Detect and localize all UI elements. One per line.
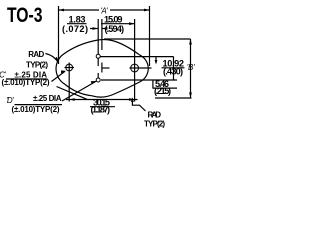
svg-text:TYP(2): TYP(2) — [26, 61, 48, 70]
pin centerline — [97, 19, 99, 66]
RAD bottom-right arrowhead — [131, 97, 134, 102]
30.15 left arrow — [69, 98, 75, 101]
svg-text:'D': 'D' — [6, 96, 14, 105]
package TO-3 flange outline — [56, 40, 148, 98]
dim A left extension line — [58, 6, 60, 64]
RAD top-left arrowhead — [54, 57, 59, 63]
svg-text:(±.010)TYP(2): (±.010)TYP(2) — [2, 78, 50, 87]
B bottom arrow — [189, 93, 192, 99]
dim 5.46 tick — [152, 80, 154, 89]
svg-text:(±.010)TYP(2): (±.010)TYP(2) — [12, 105, 60, 114]
svg-text:(.594): (.594) — [105, 24, 125, 34]
right hole horizontal arm — [130, 67, 152, 69]
dim 1.83 arrow shafts — [90, 28, 98, 30]
dim B top extension (flange top) — [104, 38, 191, 40]
dim 30.15 dimension line — [66, 99, 138, 101]
RAD bottom-right leader — [132, 99, 145, 112]
1.83 right arrow — [102, 27, 108, 30]
D dia fraction bar — [15, 104, 63, 106]
15.09 right arrow — [129, 22, 135, 25]
dim 30.15 fraction bar — [90, 106, 115, 108]
svg-text:TYP(2): TYP(2) — [144, 119, 165, 128]
D leader — [62, 81, 97, 101]
pin 1 — [96, 54, 100, 58]
right mounting hole — [131, 64, 139, 72]
svg-text:(1.187): (1.187) — [91, 105, 111, 115]
C second leader — [57, 87, 88, 100]
svg-text:RAD: RAD — [148, 110, 162, 119]
pin 2 — [96, 78, 100, 82]
right hole vertical centerline — [134, 19, 136, 102]
30.15 right arrow — [129, 98, 135, 101]
D leader arrowhead — [91, 81, 97, 84]
A left arrow — [59, 9, 65, 12]
dim B vertical line — [190, 39, 192, 98]
10.92 down arrow — [155, 60, 158, 65]
dim 10.92 arrow shaft — [155, 57, 157, 62]
arrowheads — [54, 9, 192, 102]
left hole vertical centerline — [68, 63, 70, 102]
C leader arrowhead — [61, 70, 66, 73]
center cross — [101, 63, 103, 73]
dim A dimension line — [59, 9, 100, 11]
bottom pin extension — [101, 79, 177, 81]
svg-text:(.072): (.072) — [62, 24, 88, 34]
svg-text:'B': 'B' — [187, 63, 195, 72]
C dia fraction bar — [6, 78, 48, 80]
left mounting hole — [66, 64, 73, 71]
dim 5.46 fraction bar — [153, 87, 177, 89]
RAD top-left leader — [46, 54, 59, 63]
svg-text:RAD: RAD — [28, 50, 44, 59]
svg-text:±.25 DIA: ±.25 DIA — [33, 94, 62, 103]
svg-text:(.215): (.215) — [154, 86, 171, 96]
dim 15.09 dimension line / bar — [101, 23, 135, 25]
A right arrow — [144, 9, 150, 12]
dim 1.83 fraction bar — [67, 23, 87, 25]
left hole horizontal arm — [65, 67, 75, 69]
dim 10.92 vertical line — [173, 57, 175, 80]
package vertical centerline — [101, 19, 103, 50]
dim 10.92 top pin extension — [100, 56, 174, 58]
svg-text:TO-3: TO-3 — [7, 3, 43, 27]
C leader — [52, 71, 66, 81]
dim B bottom line — [155, 97, 192, 99]
1.83 left arrow — [93, 27, 99, 30]
B top arrow — [189, 39, 192, 45]
dim 10.92 fraction bar — [162, 67, 185, 69]
dim A right extension line — [149, 6, 151, 66]
svg-text:(.430): (.430) — [163, 67, 183, 77]
